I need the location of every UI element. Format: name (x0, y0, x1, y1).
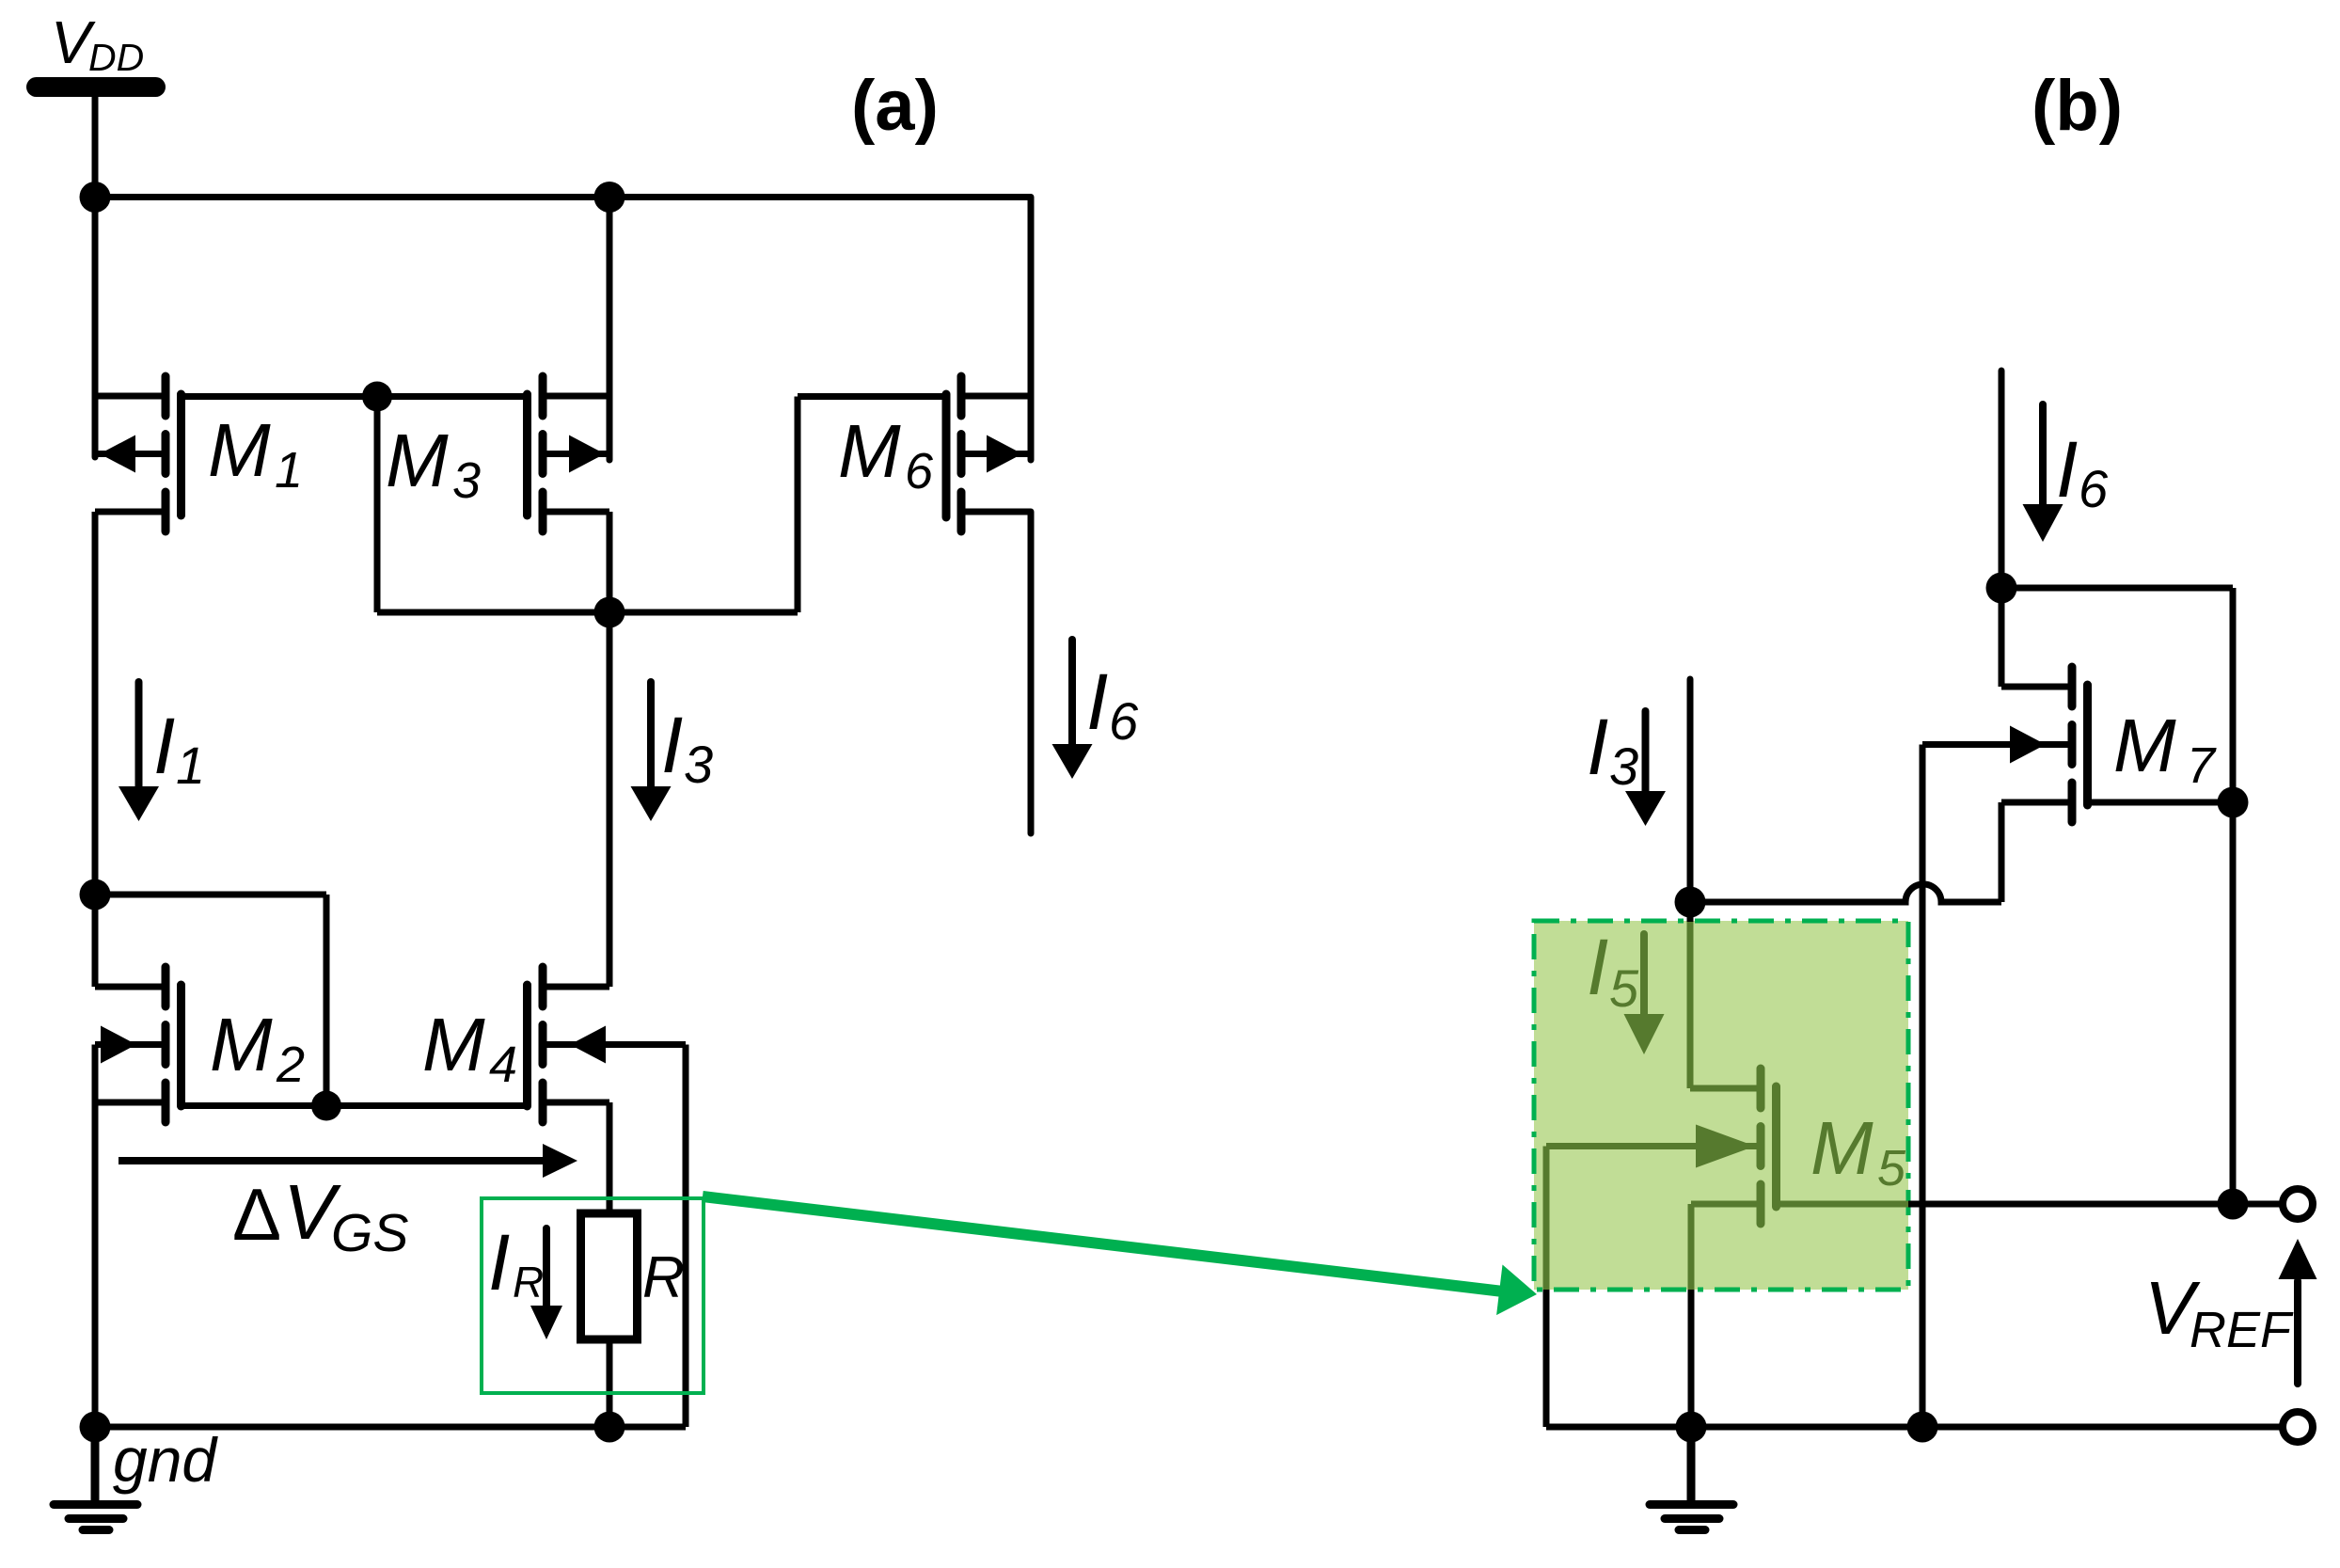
wire M5 gate lead (olive) (1777, 1201, 1909, 1208)
node dot gate line (362, 382, 392, 412)
wire M1 source from rail (92, 198, 99, 458)
svg-text:(a): (a) (851, 66, 939, 146)
transistor M2 (95, 967, 182, 1122)
svg-text:1: 1 (275, 442, 303, 499)
wire gnd rail a (95, 1424, 686, 1431)
label M1 (208, 408, 303, 499)
resistor R (581, 1213, 638, 1339)
label I1 (153, 702, 205, 795)
node dot M2 gate tap (80, 879, 111, 911)
svg-text:3: 3 (452, 452, 481, 509)
svg-text:4: 4 (489, 1037, 517, 1093)
node dot rail-M3 (594, 182, 625, 213)
transistor M1 (95, 376, 182, 531)
wire M5 body lead down (1543, 1147, 1550, 1291)
current arrow I5 (1624, 934, 1665, 1054)
wire VREF line (black) (1908, 1201, 2233, 1208)
label M3 (386, 419, 481, 509)
wire M1-M3 gate line (182, 393, 528, 400)
wire I3b down (1687, 679, 1694, 902)
node dot M3 drain (594, 597, 625, 628)
green highlight box b (1534, 921, 1908, 1290)
svg-text:5: 5 (1609, 958, 1639, 1018)
label M5 (1810, 1106, 1906, 1196)
node dot gnd-left (80, 1412, 111, 1443)
svg-text:I: I (1086, 657, 1108, 746)
wire M2-M4 gate line (182, 1102, 526, 1109)
transistor M3 (528, 376, 610, 531)
wire M2 gate feed vertical (324, 895, 330, 1106)
label dVGS (232, 1168, 408, 1263)
svg-text:M: M (208, 408, 271, 492)
svg-text:3: 3 (1609, 736, 1638, 796)
svg-text:I: I (1587, 923, 1608, 1011)
label VDD (51, 8, 144, 79)
label M2 (210, 1003, 305, 1093)
label I3 (661, 701, 713, 794)
terminal VREF- (2283, 1412, 2313, 1442)
wire I6 node east (2001, 585, 2233, 592)
transistor M5 (1546, 1069, 1777, 1224)
wire M6 drain open (1028, 512, 1035, 833)
label M6 (838, 409, 934, 499)
svg-text:REF: REF (2190, 1302, 2294, 1358)
wire M5 drain feed (1687, 902, 1694, 922)
svg-text:M: M (386, 419, 449, 502)
wire right column (2230, 588, 2237, 1204)
svg-text:6: 6 (2079, 459, 2109, 518)
terminal VREF+ (2283, 1189, 2313, 1219)
svg-text:I: I (488, 1218, 510, 1307)
current arrow IR (530, 1228, 562, 1339)
wire M7 body down (1920, 745, 1926, 1428)
wire top rail (95, 194, 1031, 200)
node dot VREF+ (2218, 1189, 2249, 1220)
transistor M7 (1922, 667, 2088, 822)
svg-text:R: R (642, 1245, 685, 1310)
svg-text:I: I (2056, 425, 2078, 514)
svg-text:6: 6 (905, 443, 934, 499)
arrow dVGS (119, 1144, 577, 1178)
svg-text:R: R (513, 1258, 544, 1307)
label I6b (2056, 425, 2109, 518)
svg-text:2: 2 (276, 1037, 305, 1093)
wire M7 source feed (1999, 588, 2005, 687)
svg-text:(b): (b) (2032, 66, 2123, 146)
wire M6 gate riser (795, 397, 801, 613)
transistor M6 (946, 376, 1031, 531)
wire node to M7 drain with hop (1690, 884, 2001, 902)
wire M2 gate feed horizontal (95, 892, 326, 898)
svg-text:1: 1 (176, 736, 205, 795)
wire M5 source down (1688, 1204, 1695, 1290)
svg-text:M: M (210, 1003, 273, 1086)
svg-text:M: M (422, 1003, 485, 1086)
wire M6 source from rail corner (1028, 198, 1035, 461)
wire I6b down (1999, 371, 2005, 588)
transistor M4 (528, 967, 687, 1122)
node dot I3b (1675, 887, 1706, 918)
green callout arrow (703, 1196, 1537, 1315)
svg-text:gnd: gnd (113, 1425, 218, 1495)
label IR (488, 1218, 544, 1307)
node dot rail-M7body (1907, 1412, 1938, 1443)
svg-text:I: I (1587, 703, 1608, 791)
svg-text:6: 6 (1109, 691, 1139, 751)
label M7 (2113, 704, 2217, 794)
wire M4 source to resistor (607, 1102, 613, 1213)
wire M2 source down (92, 1045, 99, 1428)
wire M7 gate lead (2088, 800, 2234, 806)
wire VREF+ link (2233, 1201, 2280, 1208)
wire VDD stub (92, 94, 99, 200)
current arrow I3 (631, 682, 672, 821)
wire bottom rail b (1546, 1424, 2280, 1431)
wire M7 drain riser (1999, 802, 2005, 902)
node dot I6b (1986, 573, 2017, 604)
svg-text:I: I (661, 701, 683, 789)
power symbol VDD bar (26, 77, 166, 97)
wire M3 drain down (607, 512, 613, 612)
svg-text:3: 3 (684, 735, 713, 794)
label I5 (1587, 923, 1639, 1018)
svg-text:I: I (153, 702, 175, 790)
current arrow I6a (1052, 640, 1093, 779)
svg-text:M: M (2113, 704, 2176, 787)
wire M1-M2 drain link (92, 512, 99, 987)
node dot M2-M4 gate line (311, 1091, 341, 1121)
svg-text:DD: DD (88, 36, 144, 79)
wire M4 drain from node (607, 612, 613, 987)
current arrow I3b (1625, 711, 1666, 826)
node dot M7 gate (2218, 787, 2249, 818)
green callout box a (482, 1198, 704, 1393)
svg-text:Δ: Δ (232, 1173, 281, 1256)
node dot rail-left (80, 182, 111, 213)
wire diode node line (377, 610, 798, 616)
wire M4 body down (683, 1045, 689, 1428)
svg-text:7: 7 (2187, 737, 2217, 794)
node dot gnd-resistor (594, 1412, 625, 1443)
ground symbol b (1650, 1427, 1733, 1530)
label M4 (422, 1003, 517, 1093)
svg-text:M: M (1810, 1106, 1874, 1190)
label I3b (1587, 703, 1638, 796)
svg-text:GS: GS (331, 1203, 408, 1263)
svg-text:M: M (838, 409, 901, 493)
voltage arrow VREF (2279, 1239, 2317, 1384)
current arrow I6b (2023, 404, 2063, 542)
ground symbol a (54, 1427, 137, 1530)
wire M6 gate lead (798, 393, 946, 400)
label VREF (2144, 1266, 2294, 1358)
wire resistor to gnd rail (607, 1339, 613, 1427)
wire M3 source from rail (607, 198, 613, 461)
svg-text:5: 5 (1877, 1140, 1906, 1196)
current arrow I1 (119, 682, 159, 821)
label I6a (1086, 657, 1139, 751)
wire gate-line drop (374, 397, 381, 613)
node dot rail-M5 (1676, 1412, 1707, 1443)
